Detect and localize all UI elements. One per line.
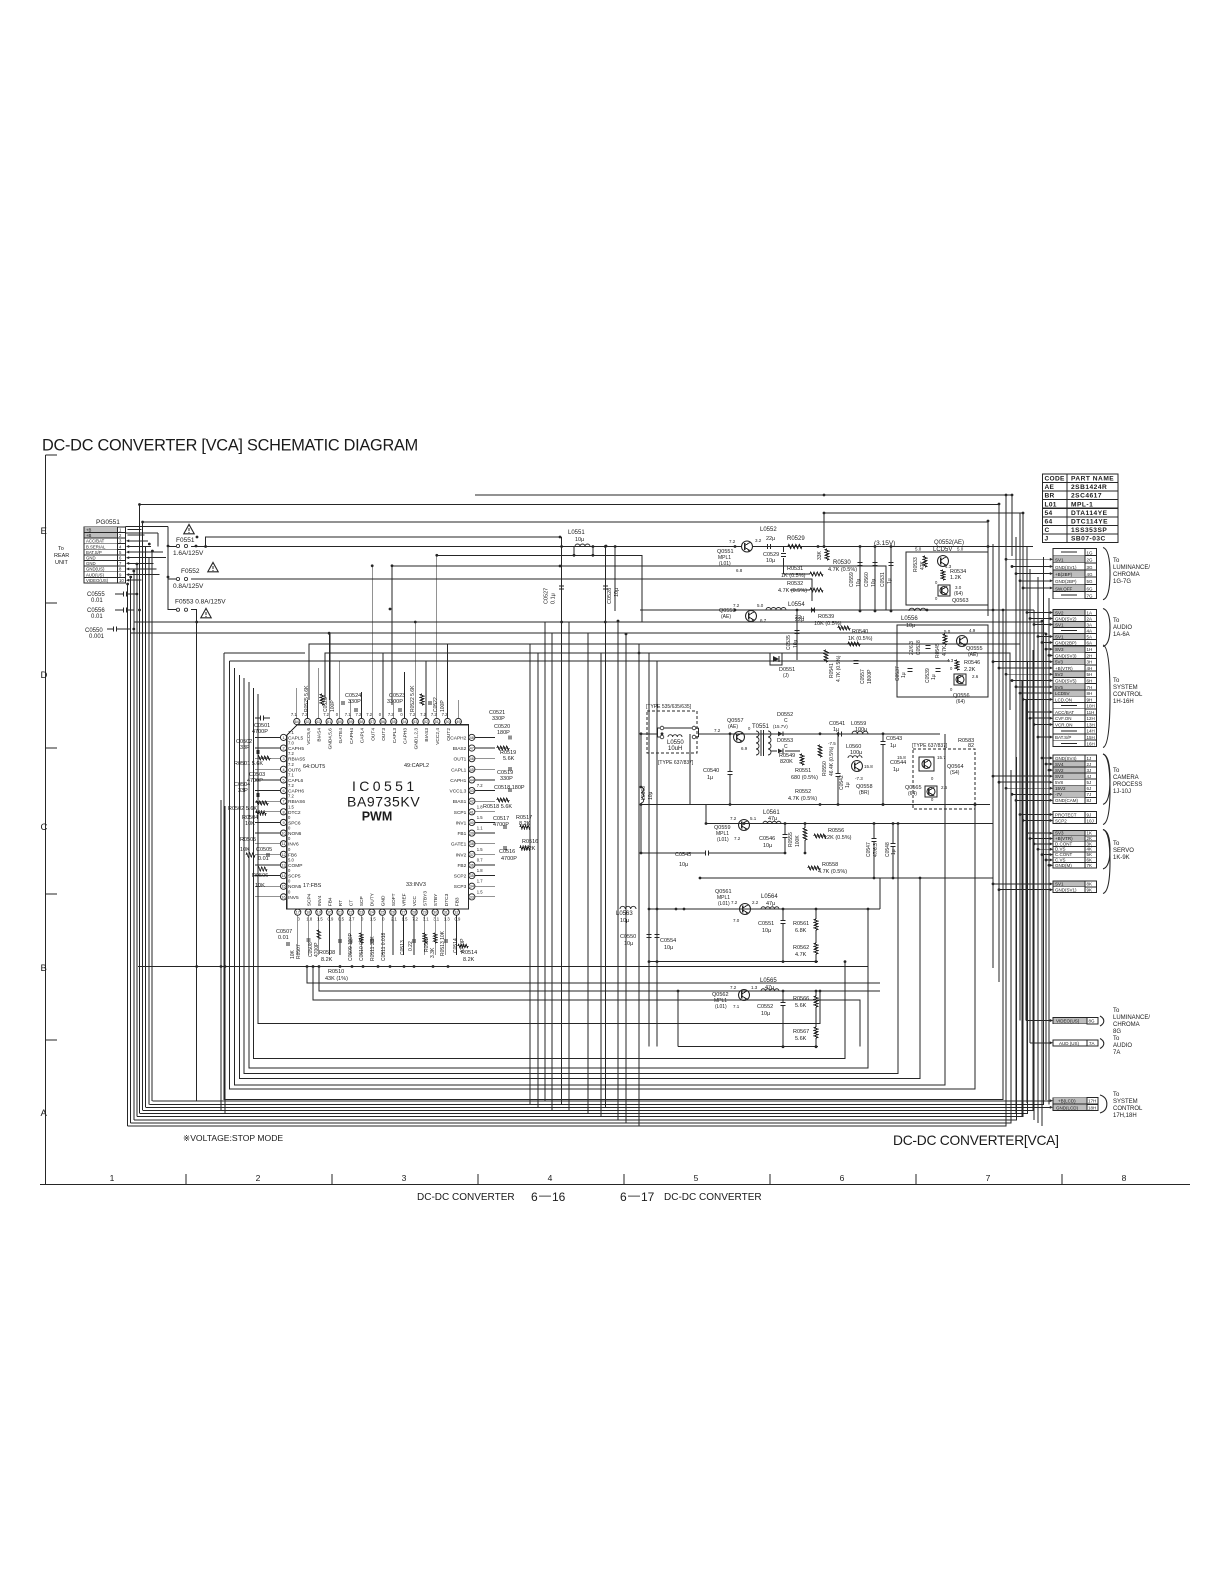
svg-text:7.2: 7.2	[729, 539, 736, 544]
wire IC right pin leads	[475, 736, 495, 738]
svg-text:7A: 7A	[1113, 1050, 1120, 1056]
svg-text:10μ: 10μ	[648, 791, 654, 800]
capacitor C0531	[890, 547, 892, 612]
svg-text:1: 1	[110, 1173, 115, 1183]
svg-text:7.2: 7.2	[288, 783, 294, 788]
svg-text:DC-DC CONVERTER[VCA]: DC-DC CONVERTER[VCA]	[893, 1133, 1059, 1148]
svg-text:5.0: 5.0	[288, 857, 294, 862]
IC0551 pin circles right column 48-33	[469, 734, 475, 740]
transistor Q0552	[938, 556, 949, 567]
svg-text:17: 17	[296, 911, 300, 915]
svg-text:58: 58	[359, 720, 363, 724]
svg-text:GND(LCD): GND(LCD)	[1056, 1105, 1079, 1110]
svg-text:C0547: C0547	[866, 842, 872, 857]
svg-text:10μ: 10μ	[761, 1011, 770, 1017]
svg-text:10μ: 10μ	[793, 639, 799, 648]
svg-text:D.VS: D.VS	[1055, 847, 1066, 852]
svg-text:SV2: SV2	[1055, 610, 1064, 615]
svg-text:10: 10	[281, 832, 285, 836]
svg-text:8K: 8K	[1087, 882, 1093, 887]
svg-text:SV3: SV3	[1055, 831, 1064, 836]
svg-text:GND(SV4): GND(SV4)	[1055, 756, 1077, 761]
svg-text:18H: 18H	[1088, 1105, 1096, 1110]
svg-text:7G: 7G	[1087, 593, 1094, 598]
svg-text:INV4: INV4	[317, 895, 323, 906]
wire junction 824	[823, 513, 825, 548]
svg-text:16H: 16H	[1087, 741, 1095, 746]
transistor Q0551	[742, 541, 753, 552]
svg-text:(S4): (S4)	[950, 770, 960, 776]
wire feed VIDEO AUD LCD	[1026, 1020, 1051, 1022]
connector PG0551	[84, 527, 118, 533]
svg-text:1G-7G: 1G-7G	[1113, 579, 1131, 585]
svg-text:C0546: C0546	[759, 836, 775, 842]
svg-text:SOFT: SOFT	[391, 893, 397, 906]
svg-text:[TYPE 637/837]: [TYPE 637/837]	[912, 743, 948, 749]
svg-text:32: 32	[454, 911, 458, 915]
svg-text:1μ: 1μ	[845, 782, 851, 788]
svg-text:4: 4	[548, 1173, 553, 1183]
svg-text:6A: 6A	[1087, 640, 1093, 645]
svg-text:1.7: 1.7	[477, 879, 483, 884]
wire top bus lines	[475, 495, 1012, 556]
svg-text:18: 18	[306, 911, 310, 915]
svg-text:GND1,2,3: GND1,2,3	[413, 728, 419, 750]
svg-text:+B(VTR): +B(VTR)	[1055, 666, 1073, 671]
svg-text:3.2: 3.2	[755, 538, 762, 543]
svg-text:47K: 47K	[920, 560, 926, 570]
svg-text:2J: 2J	[1087, 762, 1092, 767]
svg-text:48: 48	[470, 736, 474, 740]
svg-text:SV1: SV1	[1055, 558, 1064, 563]
svg-text:2.6: 2.6	[941, 785, 948, 790]
svg-text:0.01: 0.01	[91, 598, 103, 604]
svg-text:5.6K: 5.6K	[795, 1003, 807, 1009]
svg-text:GND(CAM): GND(CAM)	[1055, 798, 1078, 803]
svg-text:VCC: VCC	[412, 896, 418, 907]
svg-text:22μ: 22μ	[795, 617, 804, 623]
svg-text:BR: BR	[1045, 493, 1055, 500]
svg-text:8: 8	[1122, 1173, 1127, 1183]
svg-text:22/6.3: 22/6.3	[909, 641, 915, 655]
svg-text:C: C	[41, 822, 48, 833]
wire rect top 555	[437, 555, 642, 622]
svg-text:CAPH4: CAPH4	[349, 728, 355, 744]
svg-text:4: 4	[282, 768, 284, 772]
svg-text:ACC/BAT: ACC/BAT	[86, 539, 105, 544]
inductor L0551	[575, 544, 590, 547]
svg-text:7.2: 7.2	[388, 712, 394, 717]
svg-text:DTC114YE: DTC114YE	[1071, 518, 1108, 525]
IC0551 pin circles left column 1-16	[280, 734, 286, 740]
svg-text:CAPH3: CAPH3	[403, 728, 409, 744]
svg-text:CT: CT	[349, 900, 355, 906]
svg-text:3: 3	[282, 757, 284, 761]
svg-text:LCD5V: LCD5V	[933, 547, 952, 553]
svg-text:11: 11	[282, 842, 286, 846]
svg-text:8: 8	[282, 810, 284, 814]
svg-text:2.1: 2.1	[391, 917, 397, 922]
border ruler bottom	[40, 1184, 1190, 1186]
svg-text:VIDEO(US): VIDEO(US)	[86, 578, 109, 583]
svg-text:R0546: R0546	[964, 660, 980, 666]
svg-text:C0550: C0550	[620, 934, 636, 940]
svg-text:R0541: R0541	[829, 663, 835, 678]
svg-text:C0540: C0540	[703, 768, 719, 774]
svg-text:6.8K: 6.8K	[795, 928, 807, 934]
svg-text:6G: 6G	[1087, 586, 1094, 591]
svg-text:4A: 4A	[1087, 628, 1093, 633]
svg-text:10K: 10K	[245, 821, 255, 827]
svg-text:To: To	[1113, 1092, 1120, 1098]
svg-text:C0518 180P: C0518 180P	[494, 785, 525, 791]
svg-text:A: A	[41, 1108, 48, 1119]
svg-text:CAPH1: CAPH1	[450, 778, 466, 784]
svg-text:GATE4: GATE4	[338, 728, 344, 744]
svg-text:R0510: R0510	[328, 969, 344, 975]
wire bus 982	[307, 967, 880, 984]
svg-text:BAT.S/P: BAT.S/P	[1055, 735, 1071, 740]
svg-text:R0501 5.6K: R0501 5.6K	[234, 761, 263, 767]
svg-text:10K: 10K	[240, 847, 250, 853]
capacitor C0528	[603, 585, 608, 587]
svg-text:VCC1,3: VCC1,3	[450, 789, 467, 795]
svg-text:4J: 4J	[1087, 774, 1092, 779]
svg-text:10H: 10H	[1087, 704, 1095, 709]
svg-text:SYSTEM: SYSTEM	[1113, 685, 1138, 691]
transistor Q0558	[852, 761, 863, 772]
wire IC top pin leads	[296, 688, 298, 718]
wire middle vertical bundle	[561, 537, 563, 1105]
wire bus 621	[134, 622, 1042, 1126]
svg-text:22μ: 22μ	[766, 536, 775, 542]
capacitor C0519	[508, 767, 510, 771]
svg-text:10μ: 10μ	[762, 928, 771, 934]
svg-text:56: 56	[381, 720, 385, 724]
svg-text:CAMERA: CAMERA	[1113, 775, 1139, 781]
svg-text:9K: 9K	[1087, 888, 1093, 893]
svg-text:+B(2BP): +B(2BP)	[1055, 572, 1073, 577]
svg-text:To: To	[1113, 1008, 1120, 1014]
svg-text:4700P: 4700P	[501, 856, 517, 862]
svg-text:C0531: C0531	[880, 572, 886, 587]
svg-text:6J: 6J	[1087, 786, 1092, 791]
svg-text:55: 55	[392, 720, 396, 724]
svg-text:DC-DC CONVERTER: DC-DC CONVERTER	[664, 1192, 762, 1203]
svg-text:24: 24	[370, 911, 374, 915]
svg-text:To: To	[1113, 1036, 1120, 1042]
svg-text:7.0: 7.0	[288, 741, 294, 746]
svg-text:5G: 5G	[1087, 579, 1094, 584]
svg-text:GND: GND	[380, 895, 386, 906]
wire feeds into connector rows	[1006, 558, 1051, 560]
svg-text:9: 9	[282, 821, 284, 825]
svg-text:BAT.S/P: BAT.S/P	[86, 550, 102, 555]
warning symbol F0551	[184, 524, 194, 533]
warning symbol F0553	[201, 608, 211, 617]
svg-text:1SS353SP: 1SS353SP	[1071, 527, 1107, 534]
svg-text:2G: 2G	[1087, 558, 1094, 563]
svg-text:FB2: FB2	[457, 863, 466, 869]
svg-text:2.2: 2.2	[752, 900, 759, 905]
svg-text:SCP2: SCP2	[454, 874, 467, 880]
svg-text:47: 47	[470, 747, 474, 751]
svg-text:100μ: 100μ	[850, 750, 862, 756]
svg-text:F0551: F0551	[176, 537, 195, 544]
svg-text:3.1: 3.1	[433, 917, 439, 922]
svg-text:5: 5	[282, 778, 284, 782]
svg-text:16: 16	[281, 895, 285, 899]
svg-text:47μ: 47μ	[766, 901, 775, 907]
svg-text:5.6K: 5.6K	[503, 756, 515, 762]
transistor Q0561	[740, 904, 751, 915]
svg-text:C0511 0.018: C0511 0.018	[381, 933, 387, 961]
svg-text:L0563: L0563	[616, 911, 633, 917]
svg-text:To: To	[58, 546, 64, 552]
svg-text:1.8: 1.8	[477, 868, 483, 873]
svg-text:1.3: 1.3	[751, 985, 758, 990]
svg-text:4K: 4K	[1087, 847, 1093, 852]
svg-text:33P: 33P	[240, 745, 250, 751]
svg-text:4G: 4G	[1087, 572, 1094, 577]
transistor Q0559	[739, 820, 750, 831]
svg-text:4.7K (0.5%): 4.7K (0.5%)	[788, 796, 817, 802]
svg-text:20: 20	[327, 911, 331, 915]
svg-text:INV2: INV2	[456, 852, 467, 858]
wire bus 961.6	[649, 961, 818, 963]
svg-text:GND(M): GND(M)	[1055, 863, 1072, 868]
svg-text:64: 64	[1045, 518, 1053, 525]
svg-text:1H: 1H	[1087, 647, 1093, 652]
wire bottom onion bundle	[152, 1100, 1050, 1102]
svg-text:(15.7V): (15.7V)	[773, 724, 788, 729]
svg-text:5.0: 5.0	[915, 547, 922, 552]
svg-text:1A-6A: 1A-6A	[1113, 632, 1130, 638]
svg-text:2SB1424R: 2SB1424R	[1071, 484, 1107, 491]
svg-text:6: 6	[620, 1190, 627, 1204]
svg-text:49: 49	[456, 720, 460, 724]
svg-text:GND(2BP): GND(2BP)	[1055, 579, 1077, 584]
svg-text:2.7: 2.7	[349, 917, 355, 922]
svg-text:23: 23	[359, 911, 363, 915]
svg-text:GND(SV1): GND(SV1)	[1055, 888, 1077, 893]
svg-text:SB07-03C: SB07-03C	[1071, 536, 1106, 543]
transistor Q0565	[925, 786, 937, 797]
svg-text:7.2: 7.2	[734, 836, 741, 841]
svg-text:CHROMA: CHROMA	[1113, 572, 1140, 578]
svg-text:2SC4617: 2SC4617	[1071, 493, 1102, 500]
svg-text:8J: 8J	[1087, 798, 1092, 803]
connector +B(LCD) GND(LCD)	[1053, 1098, 1087, 1104]
svg-text:GND(US): GND(US)	[86, 567, 105, 572]
svg-text:C0551: C0551	[758, 921, 774, 927]
svg-text:7.2: 7.2	[288, 794, 294, 799]
svg-text:R0513 10K: R0513 10K	[440, 930, 446, 956]
transistor Q0553	[746, 611, 757, 622]
svg-text:7.2: 7.2	[714, 728, 721, 733]
svg-text:(64): (64)	[954, 591, 963, 597]
svg-text:0.9: 0.9	[328, 917, 334, 922]
svg-text:C.CONT: C.CONT	[1055, 852, 1072, 857]
svg-text:53: 53	[413, 720, 417, 724]
svg-text:CHROMA: CHROMA	[1113, 1022, 1140, 1028]
svg-text:820K: 820K	[780, 759, 793, 765]
svg-text:3: 3	[402, 1173, 407, 1183]
svg-text:+B(VTR): +B(VTR)	[1055, 836, 1073, 841]
svg-text:5J: 5J	[1087, 780, 1092, 785]
svg-text:1.2K: 1.2K	[950, 575, 962, 581]
svg-text:10μ: 10μ	[664, 945, 673, 951]
svg-text:R0502 5.6K: R0502 5.6K	[228, 806, 257, 812]
svg-text:49:CAPL2: 49:CAPL2	[404, 763, 429, 769]
svg-text:[TYPE 637/837]: [TYPE 637/837]	[658, 760, 694, 766]
svg-text:1μ: 1μ	[893, 767, 899, 773]
capacitor C0560	[874, 547, 876, 612]
svg-text:52: 52	[424, 720, 428, 724]
capacitor C0517	[503, 825, 505, 829]
svg-text:CAPL3: CAPL3	[392, 728, 398, 744]
svg-text:0.1μ: 0.1μ	[551, 593, 557, 604]
svg-text:R0533: R0533	[913, 557, 919, 572]
svg-text:LCD.ON: LCD.ON	[1055, 697, 1072, 702]
svg-text:13: 13	[281, 863, 285, 867]
svg-text:29: 29	[423, 911, 427, 915]
resistor R0533	[923, 556, 927, 567]
connector group to system control	[1053, 646, 1085, 652]
svg-text:3H: 3H	[1087, 660, 1093, 665]
svg-text:3.1: 3.1	[423, 917, 429, 922]
svg-text:330P: 330P	[348, 699, 361, 705]
svg-text:R0507: R0507	[296, 944, 302, 959]
svg-text:1A: 1A	[1087, 610, 1093, 615]
svg-text:10K (0.5%): 10K (0.5%)	[814, 621, 842, 627]
svg-text:12: 12	[281, 853, 285, 857]
svg-text:C: C	[784, 744, 788, 750]
svg-text:1K: 1K	[1087, 831, 1093, 836]
svg-text:R0562: R0562	[793, 945, 809, 951]
svg-text:C0509 100P: C0509 100P	[348, 933, 354, 961]
svg-text:GND: GND	[86, 556, 96, 561]
svg-text:1800P: 1800P	[867, 669, 873, 684]
svg-text:—: —	[628, 1188, 640, 1202]
wire L0552 bus	[753, 546, 1033, 548]
border ruler left	[45, 455, 47, 1185]
svg-text:SV3: SV3	[1055, 647, 1064, 652]
svg-text:INV5: INV5	[288, 895, 299, 901]
svg-text:R0551: R0551	[795, 768, 811, 774]
svg-text:PWM: PWM	[362, 810, 393, 824]
svg-text:D.CONT: D.CONT	[1055, 841, 1072, 846]
svg-text:To: To	[1113, 841, 1120, 847]
svg-text:FB4: FB4	[327, 897, 333, 906]
svg-text:BIAS3: BIAS3	[424, 728, 430, 742]
svg-text:FB3: FB3	[454, 897, 460, 906]
svg-text:1.5: 1.5	[317, 917, 323, 922]
svg-text:7.2: 7.2	[366, 712, 372, 717]
svg-text:6: 6	[840, 1173, 845, 1183]
svg-text:5V3: 5V3	[1055, 660, 1064, 665]
svg-text:SW.OFF: SW.OFF	[1055, 586, 1072, 591]
svg-text:2H: 2H	[1087, 653, 1093, 658]
svg-text:27: 27	[401, 911, 405, 915]
svg-text:21: 21	[338, 911, 342, 915]
svg-text:LCD5V: LCD5V	[1055, 691, 1070, 696]
svg-text:(AE): (AE)	[968, 652, 978, 658]
svg-text:1.5: 1.5	[477, 815, 483, 820]
svg-text:R0567: R0567	[793, 1029, 809, 1035]
svg-text:GND(2BP): GND(2BP)	[1055, 640, 1077, 645]
svg-text:R0555: R0555	[788, 832, 794, 847]
svg-text:C0557: C0557	[860, 669, 866, 684]
svg-text:C0522: C0522	[433, 697, 439, 712]
svg-text:0.001: 0.001	[89, 634, 105, 640]
resistor R0517	[520, 825, 530, 829]
svg-text:4700P: 4700P	[252, 729, 268, 735]
svg-text:1.3: 1.3	[444, 917, 450, 922]
svg-text:BIAS1: BIAS1	[453, 799, 467, 805]
wire bus 909	[650, 908, 880, 910]
svg-text:+B: +B	[86, 533, 92, 538]
svg-text:C0535: C0535	[786, 635, 792, 650]
svg-text:45: 45	[470, 768, 474, 772]
svg-text:15: 15	[281, 885, 285, 889]
svg-text:7H: 7H	[1087, 685, 1093, 690]
svg-text:7.2: 7.2	[730, 816, 737, 821]
svg-text:CAPL1: CAPL1	[451, 767, 467, 773]
wire IC left pin leads	[255, 736, 280, 738]
inductor L0554	[640, 609, 1034, 611]
svg-text:AUD (US): AUD (US)	[1059, 1041, 1080, 1046]
svg-text:100K: 100K	[795, 835, 801, 847]
wire mid nested rectangles	[224, 610, 1003, 1100]
svg-text:FB1: FB1	[457, 831, 466, 837]
svg-text:IC0551: IC0551	[352, 778, 418, 794]
svg-text:8.2K: 8.2K	[519, 821, 531, 827]
svg-text:2K: 2K	[1087, 836, 1093, 841]
op-amp/PWM IC U IC0551 body	[287, 725, 469, 909]
svg-text:7.0: 7.0	[733, 918, 740, 923]
svg-text:2: 2	[256, 1173, 261, 1183]
svg-text:1.5: 1.5	[402, 917, 408, 922]
svg-text:6.7: 6.7	[760, 618, 767, 623]
connector rows PROTECT SCP2	[1053, 812, 1085, 818]
svg-text:64:OUT5: 64:OUT5	[303, 764, 325, 770]
svg-text:0.9: 0.9	[454, 917, 460, 922]
svg-text:To: To	[1113, 618, 1120, 624]
svg-text:180P: 180P	[497, 730, 510, 736]
svg-text:SCP2: SCP2	[1055, 818, 1067, 823]
svg-text:CAPL4: CAPL4	[360, 728, 366, 744]
svg-text:CVF.ON: CVF.ON	[1055, 716, 1072, 721]
svg-text:5V5: 5V5	[1055, 685, 1064, 690]
connector VIDEO(US) 8G	[1053, 1018, 1087, 1024]
transistor Q0555	[957, 636, 968, 647]
svg-text:10J: 10J	[1087, 818, 1094, 823]
svg-text:35: 35	[470, 874, 474, 878]
svg-text:8G: 8G	[1113, 1029, 1121, 1035]
svg-text:DTC3: DTC3	[444, 893, 450, 906]
svg-text:10μ: 10μ	[906, 623, 915, 629]
svg-text:CODE: CODE	[1045, 476, 1066, 483]
wire bus 968	[138, 966, 868, 968]
resistor R0545	[943, 634, 947, 645]
svg-text:3G: 3G	[1087, 565, 1094, 570]
svg-text:1: 1	[282, 736, 284, 740]
wire IC bottom pin leads	[297, 915, 299, 955]
arrows PG0551 rows	[126, 539, 129, 542]
svg-text:UNIT: UNIT	[55, 560, 68, 566]
svg-text:1.1: 1.1	[477, 826, 483, 831]
